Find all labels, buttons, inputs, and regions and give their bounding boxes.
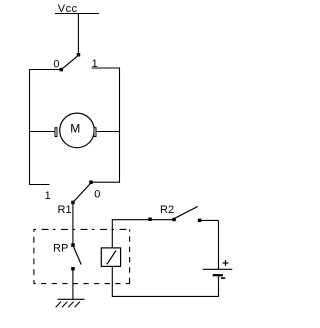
wire RV1 box to bottom return	[111, 266, 113, 296]
wire left column to motor	[29, 131, 55, 133]
wire battery negative lead	[218, 276, 220, 296]
ground hatch stroke 3	[68, 302, 73, 308]
dashed enclosure box RP : top edge	[34, 228, 131, 230]
switch SW2 arm (thrown to 0)	[73, 184, 90, 203]
ground bar	[58, 298, 85, 300]
wire SW2 contact 1 stub from left column	[29, 184, 50, 186]
switch R2 arm (open)	[175, 206, 198, 218]
wire motor to right column	[97, 131, 120, 133]
wire RP lower contact to ground	[72, 271, 74, 300]
svg-text:R1: R1	[58, 204, 72, 216]
svg-text:0: 0	[53, 58, 59, 70]
battery B1 plus sign	[223, 262, 229, 264]
switch SW2 pole dot	[71, 201, 75, 205]
wire battery positive lead	[218, 220, 220, 269]
wire left column	[29, 69, 31, 185]
ground hatch stroke 4	[75, 302, 80, 308]
resistor RV1 diagonal	[107, 251, 116, 265]
svg-text:R2: R2	[160, 204, 174, 216]
svg-text:1: 1	[45, 190, 51, 202]
switch R2 pole dot	[172, 218, 176, 222]
wire SW1 contact 0 to left column	[29, 69, 60, 71]
wire Vcc rail to switch SW1 pole	[77, 14, 79, 55]
resistor RV1 box	[101, 248, 120, 267]
svg-text:0: 0	[94, 189, 100, 201]
motor M1 right brush	[94, 128, 96, 137]
battery B1 negative plate	[213, 274, 223, 276]
Vcc power rail	[55, 13, 99, 15]
wire SW2 pole down to RP switch	[72, 204, 74, 244]
switch R2 contact dot	[198, 219, 202, 223]
svg-text:M: M	[70, 122, 80, 136]
wire right column	[119, 68, 121, 183]
battery B1 minus sign	[221, 277, 225, 279]
wire down to RV1 box	[111, 220, 113, 248]
motor M1 left brush	[55, 128, 57, 137]
wire bottom return	[112, 295, 219, 297]
switch SW1 contact 0 dot	[60, 68, 64, 72]
switch SW1 pole dot	[77, 53, 81, 57]
switch RP upper contact dot	[71, 243, 75, 247]
wire SW1 contact 1 to right column	[92, 67, 120, 69]
wire junction dot	[148, 218, 152, 222]
dashed enclosure box RP : bottom edge	[34, 283, 131, 285]
motor M1 body	[60, 113, 95, 148]
ground hatch stroke 2	[62, 302, 67, 308]
switch RP lower contact dot	[71, 267, 75, 271]
wire top of RV1 branch	[112, 219, 174, 221]
ground hatch stroke 1	[56, 302, 61, 308]
dashed enclosure box RP : left edge	[33, 229, 35, 283]
wire SW2 contact 0 to right column	[93, 181, 120, 183]
battery B1 positive plate	[203, 268, 233, 270]
switch SW1 arm (thrown to 0)	[62, 56, 78, 69]
dashed enclosure box RP : right edge	[129, 229, 131, 283]
svg-text:RP: RP	[53, 243, 68, 255]
switch SW2 contact 0 dot	[89, 181, 93, 185]
switch RP arm (open)	[74, 247, 82, 265]
wire R2 contact to battery	[201, 219, 219, 221]
